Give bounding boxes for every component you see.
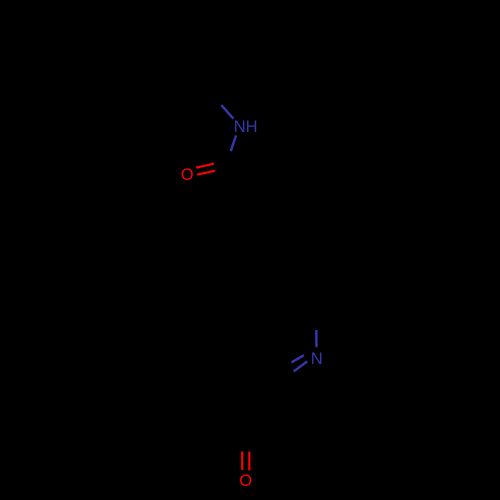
- svg-text:NH: NH: [234, 118, 258, 136]
- svg-text:O: O: [239, 472, 252, 490]
- svg-text:O: O: [181, 166, 194, 184]
- svg-text:N: N: [311, 350, 323, 368]
